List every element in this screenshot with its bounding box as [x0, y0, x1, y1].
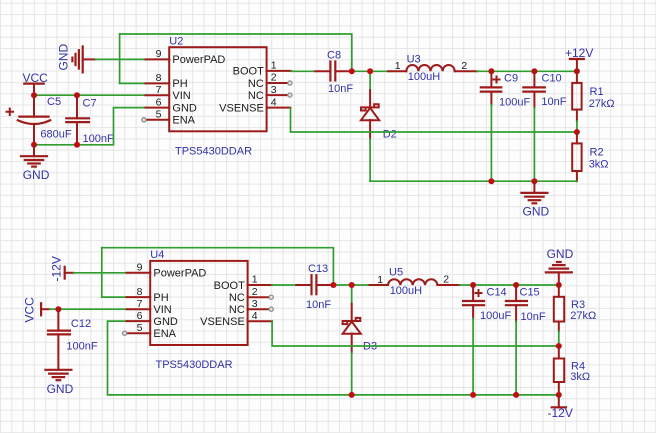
- svg-text:GND: GND: [523, 205, 550, 219]
- node C10 top: [531, 68, 537, 74]
- svg-text:1: 1: [395, 60, 401, 72]
- svg-text:2: 2: [252, 286, 258, 298]
- svg-text:27kΩ: 27kΩ: [589, 98, 615, 110]
- svg-text:NC: NC: [248, 78, 264, 90]
- node C15 bottom: [513, 392, 519, 398]
- IC U4 TPS5430DDAR: [127, 249, 273, 371]
- svg-text:4: 4: [271, 96, 277, 108]
- wire U4 GND pin 6 to -12V output rail: [108, 321, 352, 395]
- capacitor C14 100uF polarized: [463, 285, 511, 395]
- svg-text:100uH: 100uH: [390, 285, 422, 297]
- wire -12V output rail: [352, 394, 559, 396]
- wire BOOT pin1 to C13: [272, 284, 296, 286]
- wire VCC to VIN pin 7: [50, 308, 127, 310]
- IC U2 TPS5430DDAR: [146, 36, 291, 158]
- svg-text:C7: C7: [83, 97, 97, 109]
- svg-text:-12V: -12V: [548, 406, 573, 420]
- svg-text:C14: C14: [487, 286, 507, 298]
- svg-text:+12V: +12V: [565, 46, 593, 60]
- svg-text:R2: R2: [590, 146, 604, 158]
- pin 2 NC open circle: [269, 295, 273, 299]
- node C9 bottom: [488, 178, 494, 184]
- wire PH vertical from pin 8: [101, 248, 103, 297]
- pin 3 NC open circle: [288, 93, 292, 97]
- node D3 anode/rail: [349, 392, 355, 398]
- svg-text:1: 1: [377, 274, 383, 286]
- svg-text:ENA: ENA: [153, 328, 176, 340]
- wire switch node rail to +12V: [477, 70, 577, 72]
- svg-text:3: 3: [252, 298, 258, 310]
- wire to pin 8: [120, 82, 146, 84]
- capacitor C7 100nF: [66, 95, 114, 145]
- resistor R2 3k: [572, 132, 608, 181]
- node D2 cathode junction: [367, 68, 373, 74]
- svg-text:10nF: 10nF: [521, 311, 546, 323]
- wire VCC rail to VIN pin 7: [34, 94, 146, 96]
- pin 3 NC open circle: [269, 307, 273, 311]
- svg-text:8: 8: [156, 72, 162, 84]
- svg-text:U4: U4: [150, 249, 164, 261]
- svg-text:680uF: 680uF: [40, 129, 71, 141]
- svg-text:GND: GND: [57, 44, 71, 71]
- svg-text:C9: C9: [504, 72, 518, 84]
- node C15 top: [513, 282, 519, 288]
- wire C8 to switch node: [352, 70, 392, 72]
- svg-text:NC: NC: [248, 90, 264, 102]
- wire VSENSE feedback: [291, 108, 577, 132]
- svg-text:C13: C13: [308, 263, 328, 275]
- svg-text:TPS5430DDAR: TPS5430DDAR: [175, 146, 252, 158]
- node C14 bottom: [470, 392, 476, 398]
- node boot/top-loop junction: [349, 68, 355, 74]
- wire to pin 8: [102, 296, 127, 298]
- svg-text:R1: R1: [590, 86, 604, 98]
- svg-text:GND: GND: [172, 102, 197, 114]
- svg-text:6: 6: [137, 310, 143, 322]
- svg-text:7: 7: [137, 298, 143, 310]
- svg-text:3kΩ: 3kΩ: [570, 371, 590, 383]
- svg-text:100nF: 100nF: [83, 133, 114, 145]
- pin 2 NC open circle: [288, 81, 292, 85]
- pin 5 ENA open circle: [142, 118, 146, 122]
- svg-text:GND: GND: [23, 168, 50, 182]
- svg-text:100uF: 100uF: [480, 310, 511, 322]
- svg-text:10nF: 10nF: [306, 299, 331, 311]
- svg-text:2: 2: [443, 273, 449, 285]
- svg-text:C8: C8: [327, 49, 341, 61]
- svg-text:TPS5430DDAR: TPS5430DDAR: [156, 359, 233, 371]
- svg-text:C12: C12: [71, 318, 91, 330]
- node R3/R4 divider: [556, 343, 562, 349]
- node R1/R2 divider: [574, 129, 580, 135]
- svg-text:GND: GND: [47, 382, 74, 396]
- svg-text:5: 5: [156, 109, 162, 121]
- node boot/top-loop junction: [330, 282, 336, 288]
- svg-text:1: 1: [271, 60, 277, 72]
- svg-text:100uF: 100uF: [499, 96, 530, 108]
- node C7 bottom: [74, 142, 80, 148]
- wire C13 to switch node: [333, 284, 373, 286]
- svg-text:GND: GND: [153, 316, 178, 328]
- svg-text:C15: C15: [520, 286, 540, 298]
- node VCC/C5: [31, 92, 37, 98]
- diode D3 (Schottky): [343, 285, 377, 395]
- wire BOOT pin1 to C8: [291, 70, 315, 72]
- svg-text:4: 4: [252, 310, 258, 322]
- node C5 bottom: [31, 142, 37, 148]
- capacitor C8 10nF: [315, 49, 353, 95]
- svg-text:27kΩ: 27kΩ: [570, 310, 596, 322]
- svg-text:C10: C10: [542, 73, 562, 85]
- svg-text:PowerPAD: PowerPAD: [172, 54, 225, 66]
- wire switch node rail to GND flag: [460, 284, 559, 286]
- svg-text:5: 5: [137, 322, 143, 334]
- ground GND (below C12): [45, 370, 73, 396]
- svg-text:GND: GND: [547, 247, 574, 261]
- ground GND (output, above R3): [546, 247, 574, 285]
- svg-text:9: 9: [156, 48, 162, 60]
- svg-text:U2: U2: [169, 36, 183, 48]
- node C14 top: [470, 282, 476, 288]
- capacitor C10 10nF: [523, 71, 566, 181]
- capacitor C12 100nF: [48, 309, 98, 370]
- capacitor C13 10nF: [296, 263, 333, 311]
- svg-text:C5: C5: [47, 96, 61, 108]
- svg-text:3kΩ: 3kΩ: [589, 159, 609, 171]
- ground GND (sideways, at U2 PowerPAD): [57, 44, 96, 73]
- node +12V/R1: [574, 68, 580, 74]
- resistor R4 3k: [554, 346, 590, 395]
- ground GND (output, top circuit): [521, 181, 549, 218]
- power flag VCC: [23, 71, 49, 95]
- node VCC/C12: [55, 306, 61, 312]
- node D3 cathode junction: [349, 282, 355, 288]
- power flag VCC (bottom): [23, 297, 50, 323]
- resistor R3 27k: [554, 285, 596, 346]
- svg-text:ENA: ENA: [172, 115, 195, 127]
- svg-text:-12V: -12V: [50, 256, 64, 281]
- svg-text:U5: U5: [389, 267, 403, 279]
- inductor U5 100uH: [370, 267, 460, 297]
- svg-text:2: 2: [271, 72, 277, 84]
- node C10/GND bottom: [531, 178, 537, 184]
- svg-text:D2: D2: [383, 128, 397, 140]
- svg-text:VSENSE: VSENSE: [219, 102, 264, 114]
- svg-text:8: 8: [137, 286, 143, 298]
- wire PH top loop to C8 output node: [120, 34, 352, 71]
- wire -12V to pin 9: [74, 272, 127, 274]
- svg-text:VIN: VIN: [153, 304, 171, 316]
- svg-text:PowerPAD: PowerPAD: [153, 268, 206, 280]
- svg-text:NC: NC: [229, 292, 245, 304]
- ground GND (below C5): [21, 145, 50, 182]
- svg-text:10nF: 10nF: [541, 96, 566, 108]
- capacitor C9 100uF polarized: [481, 71, 531, 181]
- svg-text:NC: NC: [229, 304, 245, 316]
- svg-text:2: 2: [461, 60, 467, 72]
- svg-text:U3: U3: [407, 53, 421, 65]
- node GND/R3: [556, 282, 562, 288]
- power flag -12V (output): [548, 395, 573, 420]
- svg-text:VSENSE: VSENSE: [200, 316, 245, 328]
- svg-text:PH: PH: [153, 292, 168, 304]
- svg-text:BOOT: BOOT: [214, 280, 245, 292]
- wire PH top loop to C13 output node: [102, 248, 334, 285]
- wire GND to pin 9: [96, 58, 146, 60]
- resistor R1 27k: [572, 71, 614, 132]
- svg-text:VIN: VIN: [172, 90, 190, 102]
- svg-text:100uH: 100uH: [408, 71, 440, 83]
- wire PH vertical from pin 8: [119, 34, 121, 83]
- capacitor C5 680uF polarized: [7, 95, 72, 145]
- node C9 top: [488, 68, 494, 74]
- svg-text:PH: PH: [172, 78, 187, 90]
- svg-text:6: 6: [156, 96, 162, 108]
- inductor U3 100uH: [388, 53, 477, 82]
- svg-text:7: 7: [156, 84, 162, 96]
- svg-text:100nF: 100nF: [66, 341, 97, 353]
- wire bottom rail C5/C7 to U2 GND pin 6: [34, 108, 146, 145]
- wire VSENSE feedback: [272, 321, 559, 346]
- capacitor C15 10nF: [506, 285, 546, 395]
- svg-text:BOOT: BOOT: [233, 66, 264, 78]
- wire output ground rail: [370, 180, 577, 182]
- svg-text:9: 9: [137, 262, 143, 274]
- power flag -12V (input, at U4 PowerPAD): [50, 256, 74, 281]
- node C7 top: [74, 92, 80, 98]
- node R4/-12V: [556, 392, 562, 398]
- svg-text:1: 1: [252, 274, 258, 286]
- svg-text:VCC: VCC: [23, 297, 37, 323]
- power flag +12V: [565, 46, 593, 72]
- svg-text:10nF: 10nF: [328, 83, 353, 95]
- svg-text:3: 3: [271, 84, 277, 96]
- diode D2 (Schottky): [361, 71, 397, 181]
- pin 5 ENA open circle: [123, 331, 127, 335]
